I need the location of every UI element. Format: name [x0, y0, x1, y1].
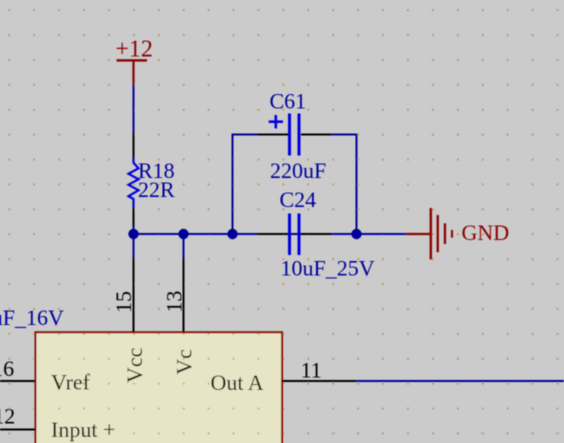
- svg-text:Vref: Vref: [51, 369, 91, 394]
- pin 11 (Out A): [282, 358, 356, 383]
- svg-text:220uF: 220uF: [270, 158, 326, 183]
- svg-text:10uF_25V: 10uF_25V: [281, 256, 375, 281]
- svg-text:C24: C24: [280, 187, 317, 212]
- wire from pin 11 to right edge: [356, 380, 564, 382]
- svg-text:10uF_16V: 10uF_16V: [0, 305, 64, 330]
- svg-text:16: 16: [0, 356, 14, 381]
- wire cap branch top right: [332, 134, 358, 136]
- junction dot C: [227, 229, 237, 239]
- ground GND: [406, 208, 509, 259]
- wire R18 to junction: [133, 226, 135, 234]
- pin 15 (Vcc): [111, 258, 136, 333]
- main horizontal wire: [134, 233, 407, 235]
- wire cap branch left vertical: [232, 135, 234, 235]
- resistor R18: [129, 133, 176, 226]
- wire junction A to pin 15: [133, 234, 135, 258]
- IC U1 body: [36, 332, 283, 443]
- junction dot B: [178, 229, 188, 239]
- pin 2 (Input +): [0, 404, 35, 430]
- svg-text:Input +: Input +: [51, 417, 115, 442]
- svg-text:Vc: Vc: [172, 349, 197, 375]
- capacitor C61: [257, 89, 332, 184]
- svg-text:13: 13: [162, 291, 187, 313]
- wire cap branch right vertical: [356, 135, 358, 235]
- wire cap branch top left: [232, 134, 258, 136]
- power +12: [115, 37, 153, 84]
- capacitor C24: [257, 187, 375, 281]
- svg-text:12: 12: [0, 404, 15, 429]
- svg-text:11: 11: [301, 358, 322, 383]
- svg-text:Out A: Out A: [211, 370, 264, 395]
- svg-text:C61: C61: [270, 89, 307, 114]
- wire +12 to R18: [133, 84, 135, 133]
- svg-text:GND: GND: [462, 220, 510, 245]
- svg-text:15: 15: [111, 291, 136, 313]
- junction dot D: [351, 229, 361, 239]
- pin 16 (Vref): [0, 356, 35, 381]
- svg-text:Vcc: Vcc: [122, 347, 147, 383]
- wire junction B to pin 13: [183, 234, 185, 258]
- svg-text:+12: +12: [115, 37, 153, 63]
- pin 13 (Vc): [162, 258, 187, 333]
- junction dot A: [128, 229, 138, 239]
- svg-text:22R: 22R: [138, 177, 175, 202]
